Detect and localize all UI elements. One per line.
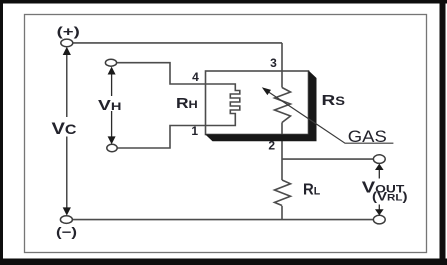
svg-text:RS: RS: [322, 92, 346, 109]
svg-text:(VRL): (VRL): [372, 191, 408, 203]
svg-text:(−): (−): [56, 224, 77, 239]
sensor package outline: [206, 71, 309, 135]
svg-text:3: 3: [270, 56, 277, 70]
wire bottom rail (-) to Vout bottom: [72, 219, 373, 221]
VC dimension arrow: [66, 52, 68, 210]
svg-text:RL: RL: [303, 182, 320, 199]
svg-text:RH: RH: [176, 95, 198, 112]
svg-text:2: 2: [268, 138, 275, 152]
terminal VH bottom: [107, 144, 117, 151]
sensor package 3D shadow: [205, 71, 316, 142]
wire VH top to pin 4: [117, 63, 206, 84]
wire top rail (+) to pin3: [73, 42, 282, 44]
resistor RS zigzag: [275, 88, 291, 123]
resistor RH heater meander: [206, 84, 240, 126]
terminal VOUT top: [373, 155, 385, 164]
terminal (+): [61, 39, 73, 47]
svg-text:GAS: GAS: [348, 127, 387, 146]
svg-text:VH: VH: [98, 98, 121, 114]
VOUT dimension arrow: [378, 167, 380, 212]
resistor RL zigzag: [275, 180, 291, 206]
VH dimension arrow: [111, 70, 113, 139]
terminal (-): [60, 216, 72, 224]
svg-text:(+): (+): [57, 24, 80, 39]
wire RL bottom: [281, 206, 283, 220]
wire VH bottom to pin 1: [117, 126, 206, 149]
svg-text:4: 4: [192, 70, 199, 84]
svg-text:VC: VC: [52, 119, 77, 138]
terminal VH top: [105, 59, 116, 66]
terminal VOUT bottom: [373, 215, 385, 224]
svg-text:1: 1: [191, 124, 198, 138]
wire pin3 vertical into sensor to Rs top: [281, 43, 283, 88]
wire Rs bottom through pin2 down to RL: [281, 123, 283, 181]
GAS leader arrow: [262, 87, 394, 143]
wire pin2 node to Vout top: [282, 158, 374, 160]
